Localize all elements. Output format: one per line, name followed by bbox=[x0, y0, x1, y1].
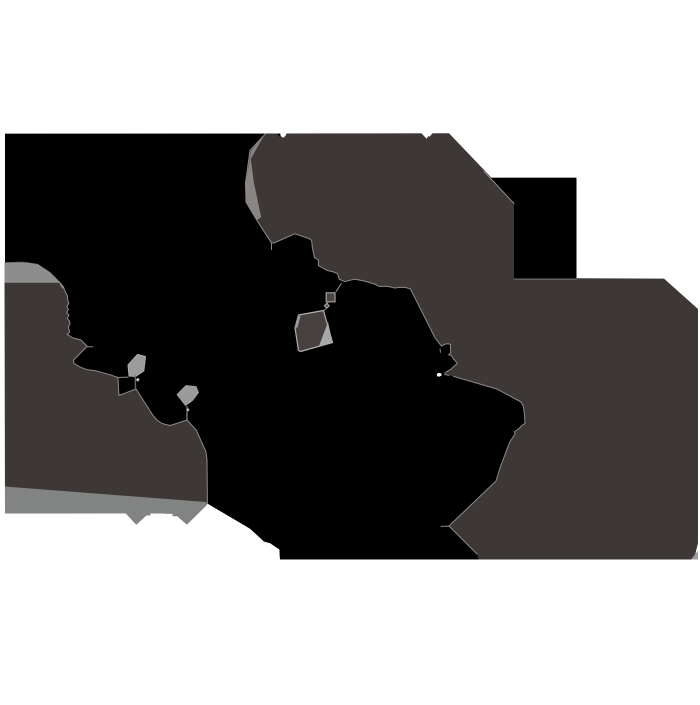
diamond 1 bbox=[136, 378, 140, 382]
white notch 2 bbox=[421, 133, 433, 139]
white dot bbox=[437, 373, 442, 377]
tail 1 bbox=[134, 376, 136, 390]
white notch 1 bbox=[280, 133, 287, 138]
pentagon 1 bbox=[128, 355, 146, 377]
connector lines bbox=[324, 283, 341, 310]
pentagon 2 bbox=[177, 386, 199, 406]
bottom-right corner light triangle bbox=[691, 551, 698, 560]
black rectangle top right bbox=[492, 178, 577, 279]
black tri at notch 1 bbox=[277, 134, 280, 137]
pentagon 3 light triangle bbox=[319, 322, 333, 346]
small diamond below square bbox=[325, 303, 330, 308]
dark grey landmass bbox=[5, 133, 699, 559]
light sliver bbox=[246, 135, 265, 221]
grey band bottom-left bbox=[5, 487, 207, 525]
boundary light strokes bbox=[60, 134, 577, 554]
pentagon 3 bbox=[295, 311, 333, 352]
black mass bbox=[5, 134, 525, 560]
small square with light outline bbox=[326, 293, 335, 302]
light wedge top-left bbox=[5, 262, 65, 289]
pentagon 3 light crescent bbox=[295, 315, 301, 328]
tail 2 bbox=[186, 406, 188, 421]
diamond 2 bbox=[186, 408, 189, 412]
